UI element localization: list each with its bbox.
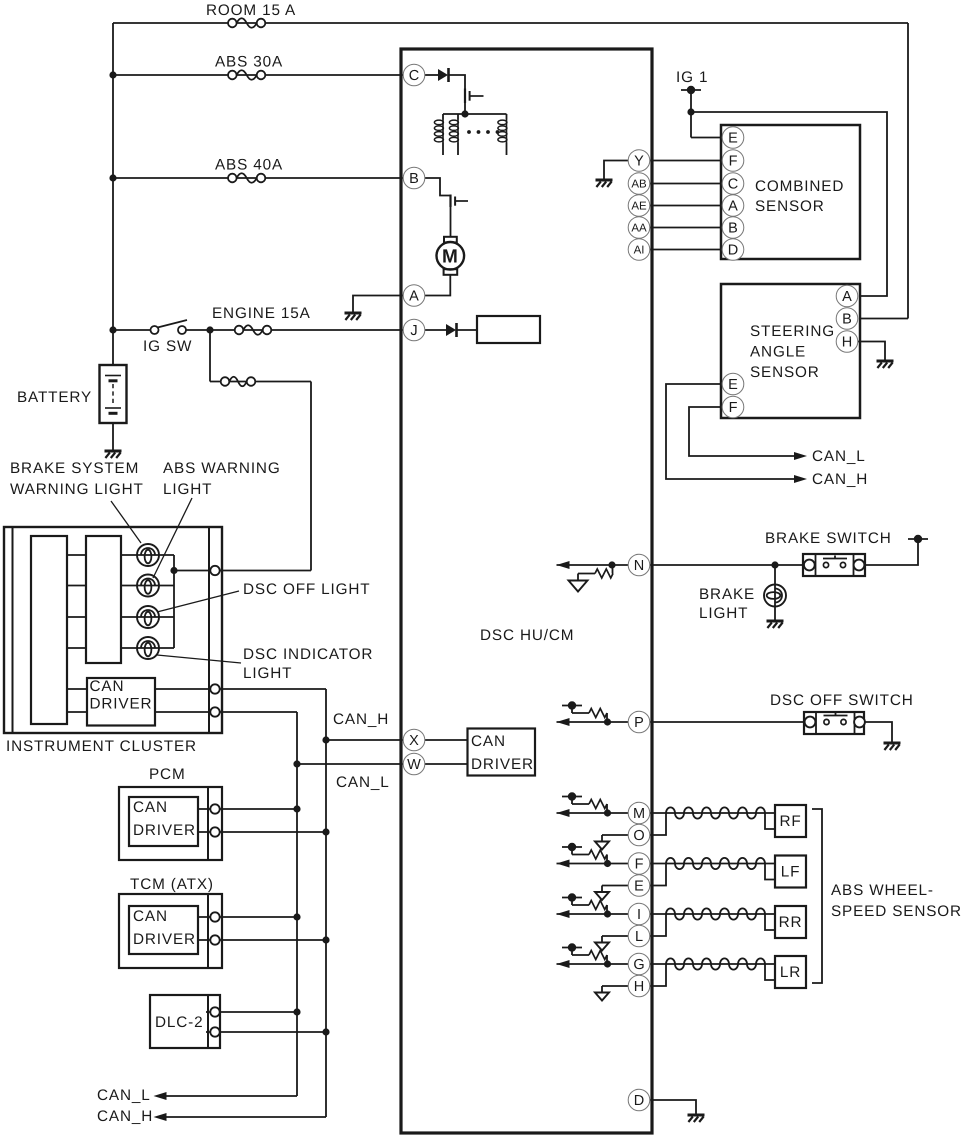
svg-text:STEERING: STEERING — [750, 323, 835, 340]
solenoid coil L1 — [434, 114, 443, 155]
TCM CAN driver box — [129, 906, 198, 954]
solenoid coil Ln — [498, 114, 507, 155]
svg-text:A: A — [409, 289, 419, 305]
fuse ABS 40A — [228, 173, 265, 183]
pin AI DSC right — [628, 239, 650, 261]
svg-text:E: E — [728, 131, 738, 147]
wire steering sensor pin E to CAN_H arrow — [666, 384, 796, 479]
PCM connector rail — [207, 787, 209, 860]
pull-up and arrow pin P internal — [557, 701, 631, 726]
pin E steering angle sensor left — [722, 373, 744, 395]
pin H DSC right — [628, 975, 650, 997]
DSC off switch — [804, 712, 865, 734]
pin AA DSC right — [628, 217, 650, 239]
wire pin AI to combined sensor D — [650, 249, 722, 251]
pin L DSC right — [628, 925, 650, 947]
pin A DSC left — [403, 285, 425, 307]
svg-text:CAN_H: CAN_H — [97, 1108, 153, 1125]
wire steering angle sensor pin H to ground — [858, 342, 885, 361]
junction battery bus / ABS40A — [109, 174, 116, 181]
wire IG1 branch to steering angle sensor pin A — [691, 112, 887, 296]
junction solenoid bus — [461, 110, 468, 117]
svg-text:COMBINED: COMBINED — [755, 178, 844, 195]
PCM CAN driver box — [129, 797, 198, 846]
wire second fuse row — [210, 381, 311, 383]
wire ABS 40A row to pin B — [113, 177, 403, 179]
pin Y DSC right — [628, 150, 650, 172]
svg-text:LF: LF — [781, 864, 801, 881]
wire pin AE to combined sensor A — [650, 205, 722, 207]
sensor box LR — [775, 956, 806, 988]
svg-text:ABS WHEEL-: ABS WHEEL- — [831, 882, 934, 899]
svg-text:BATTERY: BATTERY — [17, 389, 92, 406]
wire pin Y to combined sensor F — [650, 160, 722, 162]
pin M DSC right — [628, 802, 650, 824]
svg-text:DRIVER: DRIVER — [133, 931, 196, 948]
pin A combined sensor — [722, 195, 744, 217]
wire pump motor to pin A — [425, 275, 450, 296]
ellipsis dots between solenoid coils — [467, 130, 499, 134]
svg-text:H: H — [842, 335, 852, 351]
DLC-2 connector rail — [207, 995, 209, 1048]
wire lamp row 2 — [67, 585, 86, 587]
motor M pump — [437, 237, 465, 275]
svg-text:A: A — [842, 289, 852, 305]
pin F combined sensor — [722, 150, 744, 172]
arrow CAN_L out — [154, 1092, 167, 1100]
wire ROOM 15A feed row — [113, 22, 908, 24]
svg-text:M: M — [633, 806, 645, 822]
svg-text:C: C — [409, 68, 419, 84]
svg-text:DSC HU/CM: DSC HU/CM — [480, 627, 574, 644]
svg-text:TCM (ATX): TCM (ATX) — [130, 876, 214, 893]
fuse ENGINE 15A — [235, 325, 272, 335]
ground steering angle sensor — [877, 361, 894, 368]
pin AB DSC right — [628, 173, 650, 195]
svg-text:O: O — [633, 828, 644, 844]
solenoid coil L2 — [449, 114, 458, 155]
combined sensor box — [721, 125, 860, 259]
wire pin L to sensor coil — [650, 914, 666, 936]
wire pin O to sensor coil — [650, 813, 666, 835]
drain open arrow pin L — [595, 936, 628, 951]
inductor coil LF wheel sensor — [666, 858, 765, 869]
svg-text:L: L — [635, 929, 643, 945]
wire coil end into LF box — [765, 864, 775, 880]
pin O DSC right — [628, 824, 650, 846]
DSC HU/CM main box — [401, 49, 652, 1133]
pin B combined sensor — [722, 217, 744, 239]
resistor pin N pulldown — [578, 565, 613, 580]
wire pin H to sensor coil — [650, 964, 666, 986]
pin C combined sensor — [722, 173, 744, 195]
svg-text:ABS 30A: ABS 30A — [215, 54, 283, 71]
TCM connector rail — [207, 894, 209, 968]
pin A steering angle sensor right — [836, 285, 858, 307]
svg-text:ROOM 15 A: ROOM 15 A — [206, 2, 296, 19]
lamp DSC off light — [137, 606, 159, 628]
bracket ABS wheel-speed sensor group — [812, 809, 822, 983]
power tap IG 1 — [681, 86, 701, 94]
svg-text:BRAKE: BRAKE — [699, 586, 755, 603]
drain open arrow pin O — [595, 835, 628, 850]
junction battery bus / ABS30A — [109, 71, 116, 78]
svg-text:B: B — [409, 171, 419, 187]
svg-text:ENGINE 15A: ENGINE 15A — [212, 305, 311, 322]
junction lamp feed — [170, 567, 177, 574]
svg-text:P: P — [634, 715, 644, 731]
connector circle PCM CAN_L — [210, 804, 219, 813]
svg-text:M: M — [442, 246, 459, 267]
svg-text:AB: AB — [631, 179, 647, 191]
wire pin N internal with junction — [557, 564, 629, 566]
svg-text:CAN: CAN — [90, 678, 125, 695]
pin G DSC right — [628, 953, 650, 975]
svg-text:CAN_H: CAN_H — [333, 711, 389, 728]
connector circle DLC-2 CAN_L — [210, 1007, 219, 1016]
callout line DSC off light — [157, 591, 239, 612]
svg-text:PCM: PCM — [149, 766, 186, 783]
wire PCM CAN_H row — [198, 831, 326, 833]
power tap brake switch feed — [908, 535, 928, 543]
svg-text:W: W — [407, 757, 421, 773]
svg-text:E: E — [634, 879, 644, 895]
fuse cluster feed — [221, 377, 256, 387]
wire MOSFET to pump motor — [450, 207, 452, 237]
wire pin AA to combined sensor B — [650, 227, 722, 229]
svg-text:D: D — [728, 243, 738, 259]
wire pin B to pump MOSFET — [425, 178, 451, 196]
sensor box RR — [775, 906, 806, 938]
instrument cluster box — [4, 527, 222, 733]
wire steering sensor pin F to CAN_L arrow — [689, 407, 796, 456]
svg-text:SPEED SENSOR: SPEED SENSOR — [831, 903, 962, 920]
svg-text:G: G — [633, 957, 644, 973]
pin N DSC right — [628, 554, 650, 576]
pin P DSC right — [628, 711, 650, 733]
wire pin G to LR sensor — [650, 963, 775, 965]
wire brake light branch — [774, 565, 776, 620]
sensor box LF — [775, 856, 806, 888]
callout line brake system warning light — [111, 501, 141, 543]
wire steering angle sensor pin B to ROOM feed — [860, 318, 908, 320]
pin J DSC left — [403, 319, 425, 341]
pin C DSC left — [403, 64, 425, 86]
pin D DSC right — [628, 1089, 650, 1111]
connector circle TCM CAN_L — [210, 912, 219, 921]
wire solenoid bus horizontal — [443, 113, 507, 115]
TCM box — [119, 894, 222, 968]
wire coil end into RR box — [765, 914, 775, 930]
wire MOSFET source to solenoid bus — [464, 103, 466, 114]
callout line ABS warning light — [153, 498, 192, 578]
wire pin M to RF sensor — [650, 812, 775, 814]
wire pin X internal — [425, 739, 468, 741]
DLC-2 box — [150, 995, 220, 1048]
pin I DSC right — [628, 903, 650, 925]
pin W DSC left — [403, 753, 425, 775]
svg-text:DRIVER: DRIVER — [90, 696, 153, 713]
connector circle cluster CAN_L — [210, 707, 219, 716]
svg-text:DLC-2: DLC-2 — [155, 1014, 203, 1031]
svg-text:F: F — [729, 154, 738, 170]
wire pin C to diode — [425, 74, 438, 76]
cluster CAN driver box — [87, 678, 155, 726]
instrument cluster inner right rail — [208, 527, 210, 733]
connector circle cluster lamp feed — [210, 566, 219, 575]
wire pin P to DSC OFF switch — [650, 721, 804, 723]
wire cluster CAN driver row H — [67, 688, 87, 690]
svg-text:IG 1: IG 1 — [676, 69, 708, 86]
pin H steering angle sensor right — [836, 331, 858, 353]
ground pin D — [688, 1115, 705, 1122]
svg-text:CAN_L: CAN_L — [336, 774, 390, 791]
svg-text:LIGHT: LIGHT — [163, 481, 212, 498]
svg-text:ABS WARNING: ABS WARNING — [163, 460, 281, 477]
arrow CAN_H out — [154, 1113, 167, 1121]
wire battery bus to IG SW — [113, 329, 151, 331]
wire pin I to RR sensor — [650, 913, 775, 915]
wire pin X to CAN_H bus — [326, 739, 403, 741]
junction PCM / CAN_H — [322, 828, 329, 835]
wire lamp collector vertical — [173, 555, 175, 648]
PCM box — [119, 787, 222, 860]
wire TCM CAN_L row — [198, 916, 297, 918]
junction DLC-2 / CAN_L — [293, 1008, 300, 1015]
wire diode to MOSFET drain — [449, 75, 465, 89]
wire pin J to diode — [425, 329, 446, 331]
svg-text:DSC OFF LIGHT: DSC OFF LIGHT — [243, 581, 370, 598]
svg-text:Y: Y — [634, 154, 644, 170]
wire CAN_L bus to left arrow — [166, 1095, 297, 1097]
connector circle PCM CAN_H — [210, 827, 219, 836]
svg-text:I: I — [637, 907, 641, 923]
DSC internal CAN driver box — [468, 729, 536, 776]
lamp brake system warning light — [137, 544, 159, 566]
svg-text:LIGHT: LIGHT — [243, 665, 292, 682]
svg-text:INSTRUMENT CLUSTER: INSTRUMENT CLUSTER — [6, 738, 197, 755]
junction TCM / CAN_H — [322, 936, 329, 943]
connector circle cluster CAN_H — [210, 684, 219, 693]
wire left battery bus vertical — [112, 23, 114, 365]
wire lamp row 3 — [67, 616, 86, 618]
brake switch — [803, 554, 865, 576]
callout line DSC indicator light — [157, 655, 241, 663]
svg-text:F: F — [729, 400, 738, 416]
battery symbol — [100, 365, 127, 423]
connector circle TCM CAN_H — [210, 935, 219, 944]
lamp ABS warning light — [137, 575, 159, 597]
svg-text:D: D — [634, 1093, 644, 1109]
transistor Q2 (FET) pump driver — [451, 195, 469, 208]
svg-text:BRAKE SWITCH: BRAKE SWITCH — [765, 530, 892, 547]
svg-text:AE: AE — [631, 201, 647, 213]
ground battery — [105, 451, 122, 458]
junction CAN_L / pin W — [293, 760, 300, 767]
pin B DSC left — [403, 167, 425, 189]
svg-text:AI: AI — [634, 245, 645, 257]
svg-text:X: X — [409, 733, 419, 749]
inductor coil LR wheel sensor — [666, 958, 765, 969]
wire CAN_H bus vertical — [325, 689, 327, 1117]
diode D2 ignition feed — [446, 323, 457, 337]
wire lamp row 4 — [67, 647, 86, 649]
pull-up and arrow pin I internal — [557, 893, 631, 918]
svg-text:LIGHT: LIGHT — [699, 605, 748, 622]
svg-text:RR: RR — [779, 914, 803, 931]
svg-text:SENSOR: SENSOR — [755, 198, 825, 215]
wire pin A to ground — [353, 296, 403, 313]
svg-text:IG SW: IG SW — [143, 338, 192, 355]
switch IG SW contacts — [151, 320, 188, 334]
arrow pin N internal left — [557, 561, 570, 569]
wire lamp feed to cluster connector — [174, 570, 220, 572]
wire brake switch to battery tap — [865, 539, 918, 565]
inductor coil RF wheel sensor — [666, 807, 765, 818]
pull-up and arrow pin M internal — [557, 792, 631, 817]
svg-text:N: N — [634, 558, 644, 574]
svg-text:SENSOR: SENSOR — [750, 364, 820, 381]
svg-text:BRAKE SYSTEM: BRAKE SYSTEM — [10, 460, 139, 477]
wire pin E to sensor coil — [650, 864, 666, 886]
junction IG1 branch — [687, 108, 694, 115]
pin E DSC right — [628, 875, 650, 897]
pin X DSC left — [403, 729, 425, 751]
wire battery to ground — [112, 423, 114, 450]
svg-text:J: J — [410, 323, 417, 339]
fuse ABS 30A — [228, 70, 265, 80]
drain open arrow pin H — [595, 986, 628, 1001]
wire coil end into RF box — [765, 813, 775, 829]
pin F DSC right — [628, 853, 650, 875]
wire pin Y internal to ground — [604, 161, 628, 180]
svg-text:AA: AA — [631, 223, 647, 235]
junction CAN_H / pin X — [322, 736, 329, 743]
svg-text:WARNING LIGHT: WARNING LIGHT — [10, 481, 144, 498]
ground brake light — [767, 621, 784, 628]
instrument cluster inner left rail — [12, 527, 14, 733]
pull-up and arrow pin G internal — [557, 943, 631, 968]
inductor coil RR wheel sensor — [666, 908, 765, 919]
svg-text:CAN_L: CAN_L — [97, 1087, 151, 1104]
internal supply box — [477, 316, 540, 343]
wire DLC-2 CAN_L row — [206, 1011, 297, 1013]
instrument cluster block 2 — [86, 536, 121, 663]
wire pin W internal — [425, 763, 468, 765]
svg-text:F: F — [635, 857, 644, 873]
connector circle DLC-2 CAN_H — [210, 1027, 219, 1036]
svg-text:CAN: CAN — [133, 908, 168, 925]
svg-text:DRIVER: DRIVER — [471, 756, 534, 773]
drain open arrow pin E — [595, 886, 628, 901]
wire down to instrument cluster feed — [310, 382, 312, 571]
open arrow pin N to ground — [569, 581, 588, 592]
pin AE DSC right — [628, 195, 650, 217]
pin D combined sensor — [722, 239, 744, 261]
svg-text:ABS 40A: ABS 40A — [215, 157, 283, 174]
wire pin F to LF sensor — [650, 863, 775, 865]
fuse ROOM 15 A — [228, 18, 265, 28]
svg-text:H: H — [634, 979, 644, 995]
arrow CAN_L right — [794, 452, 807, 460]
svg-text:LR: LR — [780, 964, 801, 981]
ground DSC off switch — [884, 743, 901, 750]
transistor Q1 (FET) solenoid driver — [465, 89, 484, 104]
svg-text:DRIVER: DRIVER — [133, 822, 196, 839]
lamp DSC indicator light — [137, 637, 159, 659]
svg-text:DSC OFF SWITCH: DSC OFF SWITCH — [770, 692, 914, 709]
svg-text:E: E — [728, 377, 738, 393]
ground pin A return — [345, 313, 362, 320]
wire CAN_H bus to left arrow — [166, 1116, 326, 1118]
wire pin N to brake switch — [650, 564, 803, 566]
wire IG1 down to combined sensor pin E — [690, 90, 692, 138]
svg-text:C: C — [728, 177, 738, 193]
svg-text:RF: RF — [779, 813, 801, 830]
wire pin D to ground — [650, 1100, 696, 1114]
arrow CAN_H right — [794, 475, 807, 483]
wire branch down from IG SW node to second fuse — [209, 330, 211, 382]
wire DLC-2 CAN_H row — [206, 1031, 326, 1033]
wire PCM CAN_L row — [198, 808, 297, 810]
instrument cluster block 1 — [31, 536, 67, 724]
svg-text:CAN_L: CAN_L — [812, 448, 866, 465]
junction IG SW / ENGINE fuse branch — [206, 326, 213, 333]
lamp brake light — [764, 585, 786, 607]
diode D1 solenoid supply — [438, 68, 449, 82]
pin F steering angle sensor left — [722, 396, 744, 418]
svg-text:CAN: CAN — [471, 733, 506, 750]
junction battery bus / IG SW — [109, 326, 116, 333]
wire pin AB to combined sensor C — [650, 183, 722, 185]
wire TCM CAN_H row — [198, 939, 326, 941]
steering angle sensor box — [721, 284, 860, 418]
junction brake light tap — [771, 561, 778, 568]
svg-text:CAN: CAN — [133, 799, 168, 816]
wire ABS 30A row to pin C — [113, 74, 403, 76]
junction DLC-2 / CAN_H — [322, 1028, 329, 1035]
pin B steering angle sensor right — [836, 308, 858, 330]
junction pin N internal — [608, 561, 615, 568]
svg-text:CAN_H: CAN_H — [812, 471, 868, 488]
wire DSC off switch to ground — [864, 722, 892, 742]
wire CAN_L bus vertical — [296, 712, 298, 1096]
wire lamp row 1 — [67, 554, 86, 556]
wire right vertical from ROOM fuse to steering angle sensor pin B — [907, 23, 909, 319]
wire into instrument cluster warning lamp feed — [220, 570, 312, 572]
svg-text:B: B — [728, 221, 738, 237]
pull-up and arrow pin F internal — [557, 843, 631, 868]
svg-text:B: B — [842, 312, 852, 328]
ground DSC internal Y — [596, 180, 613, 187]
wire coil end into LR box — [765, 964, 775, 980]
svg-text:ANGLE: ANGLE — [750, 344, 806, 361]
junction PCM / CAN_L — [293, 805, 300, 812]
wire pin W to CAN_L bus — [297, 763, 403, 765]
junction TCM / CAN_L — [293, 913, 300, 920]
wire diode to internal supply box — [457, 329, 477, 331]
sensor box RF — [775, 805, 806, 837]
wire cluster CAN driver row L — [67, 711, 87, 713]
pin E combined sensor — [722, 127, 744, 149]
svg-text:DSC INDICATOR: DSC INDICATOR — [243, 646, 373, 663]
wire IG SW to ENGINE 15A fuse and pin J — [186, 329, 403, 331]
svg-text:A: A — [728, 199, 738, 215]
